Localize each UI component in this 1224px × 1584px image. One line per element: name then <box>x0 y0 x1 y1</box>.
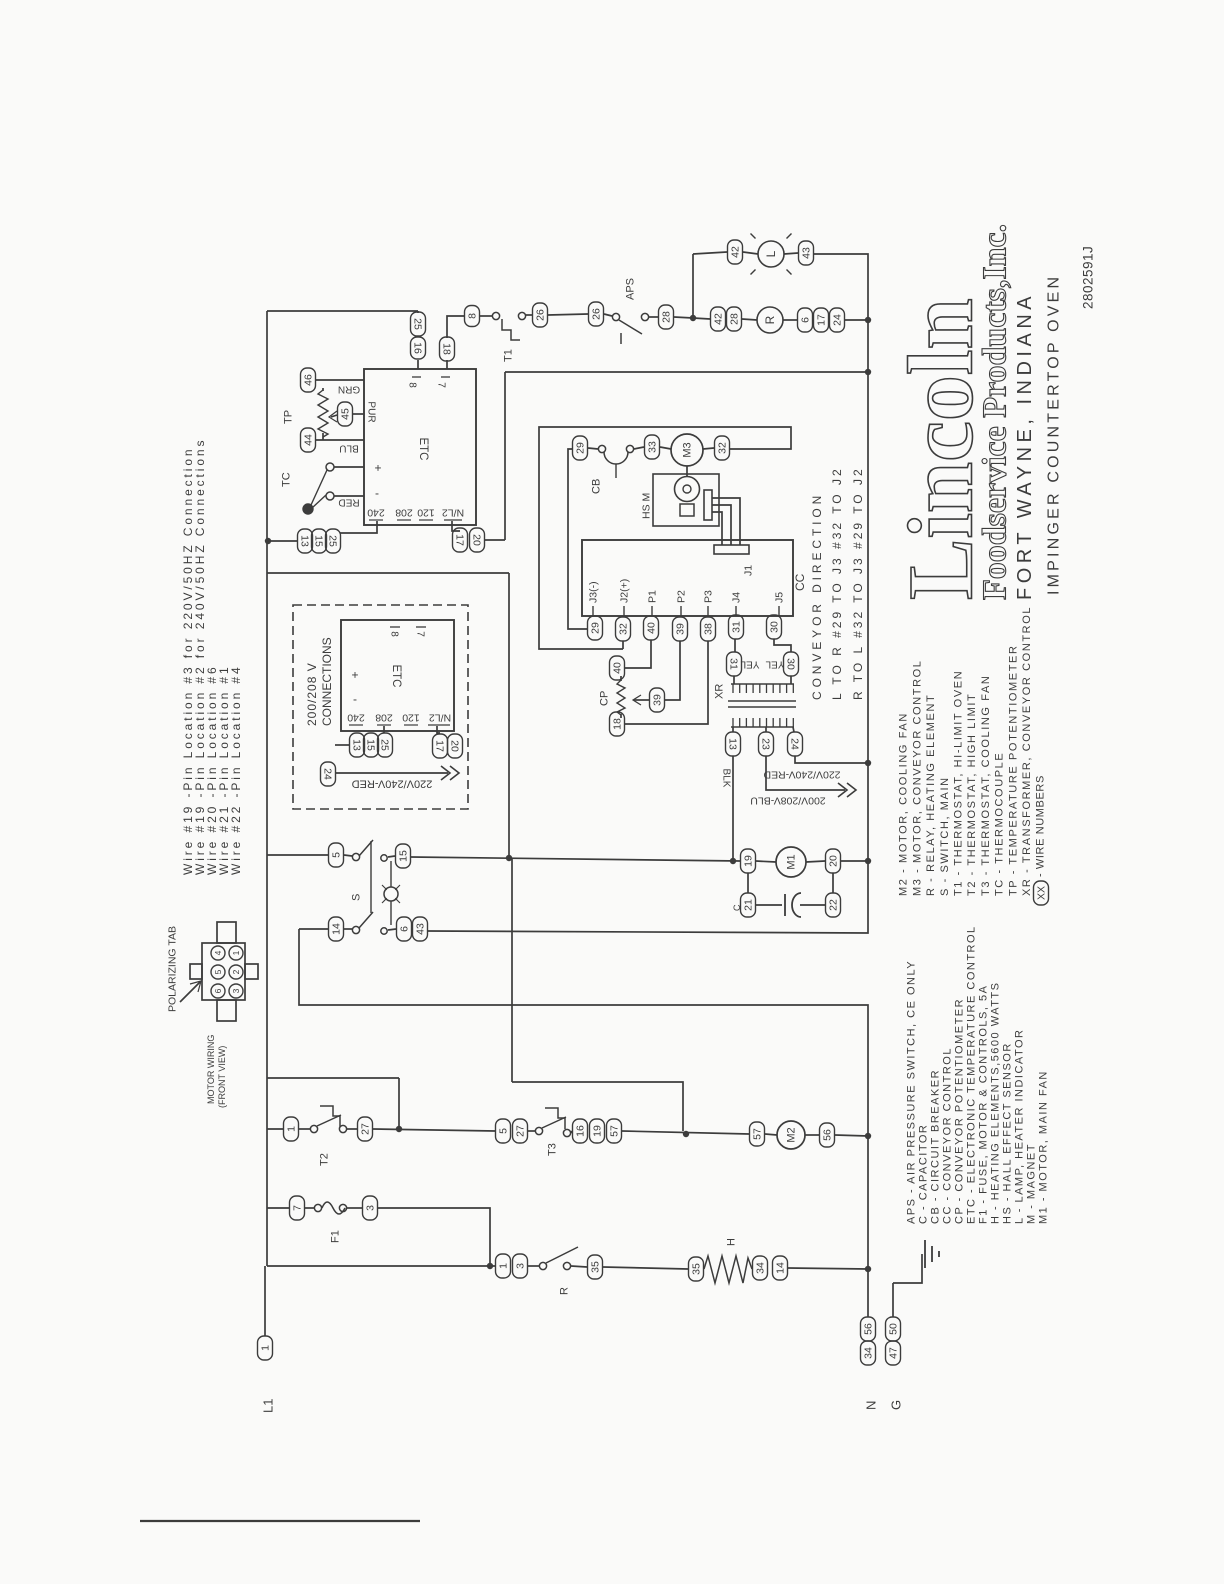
wire number 1 at T2 <box>284 1117 299 1141</box>
svg-text:XR - TRANSFORMER, CONVEYOR CO: XR - TRANSFORMER, CONVEYOR CONTROL <box>1021 606 1033 896</box>
svg-text:120: 120 <box>402 711 420 723</box>
wire number 17 <box>433 734 448 758</box>
box 200/208V connections (dashed) <box>293 605 468 809</box>
svg-text:CONNECTIONS: CONNECTIONS <box>320 637 334 726</box>
magnet disc M <box>675 477 700 502</box>
svg-text:17: 17 <box>433 740 445 752</box>
ETC pin7 riser to T1 row <box>447 316 464 338</box>
wire left bus L1 side <box>266 311 268 1266</box>
wire number 27 at T3 <box>513 1119 528 1143</box>
svg-text:L1: L1 <box>260 1399 275 1413</box>
wire number 35 at R <box>588 1255 603 1279</box>
svg-text:+: + <box>374 461 381 475</box>
node bus/ETC-240 junction <box>265 538 271 544</box>
wire number 43 at S <box>413 917 428 941</box>
wire to S pole2 wire-14 pill <box>299 928 328 930</box>
svg-text:CP: CP <box>599 691 611 706</box>
wire to pill 42 lamp row <box>693 252 727 254</box>
svg-text:HS - HALL EFFECT SENSOR: HS - HALL EFFECT SENSOR <box>1002 1042 1014 1224</box>
contact R left <box>539 1262 546 1269</box>
wire number 7 at F1 <box>290 1196 305 1220</box>
wire M1 to 20 <box>806 861 825 862</box>
svg-text:38: 38 <box>703 623 715 635</box>
wire number 32 at M3 <box>715 436 730 460</box>
wire BLU to ETC1 <box>316 439 364 441</box>
svg-text:5: 5 <box>498 1128 510 1134</box>
node R row / bus <box>865 317 871 323</box>
svg-text:L - LAMP, HEATER INDICATOR: L - LAMP, HEATER INDICATOR <box>1014 1029 1026 1224</box>
thermostat T1 element <box>502 319 520 340</box>
potentiometer CP <box>617 680 625 715</box>
pin 8 of ETC2 <box>390 626 400 628</box>
svg-text:14: 14 <box>331 923 343 935</box>
svg-text:31: 31 <box>731 621 743 633</box>
connector motor wiring front view <box>202 943 245 1000</box>
transformer XR core <box>728 700 796 702</box>
svg-text:4: 4 <box>213 950 223 955</box>
svg-text:J2(+): J2(+) <box>619 579 631 603</box>
wire stub at pill 13 <box>335 744 349 746</box>
wire bus to switch S pole1 <box>267 854 328 856</box>
wire number 34 at H <box>753 1256 768 1280</box>
node T3 out junction <box>683 1131 689 1137</box>
wire CC J2 to M3 terminal 32 <box>539 427 791 649</box>
connector pin 2 <box>229 965 243 979</box>
wire L1 row to relay R <box>267 1265 495 1267</box>
svg-text:43: 43 <box>415 923 427 935</box>
CP wiper arrow <box>634 699 649 701</box>
svg-text:7: 7 <box>292 1205 304 1211</box>
svg-text:29: 29 <box>590 622 602 634</box>
wire bus to T2 wire-1 pill <box>267 1128 284 1130</box>
svg-text:M2: M2 <box>786 1127 798 1142</box>
switch APS tick <box>620 333 622 344</box>
svg-text:16: 16 <box>411 342 423 354</box>
svg-text:30: 30 <box>784 658 796 670</box>
node ETC feed / bus <box>865 369 871 375</box>
wire right bus upper (L row to S pole2 out) <box>428 254 868 933</box>
arrow polarizing tab <box>180 982 200 1002</box>
wire feeder drop to M1 row <box>508 573 510 858</box>
svg-text:TP - TEMPERATURE POTENTIOMETE: TP - TEMPERATURE POTENTIOMETER <box>1007 644 1019 896</box>
svg-text:M3: M3 <box>682 442 694 457</box>
svg-text:56: 56 <box>822 1129 834 1141</box>
wire number 3 at F1 <box>363 1196 378 1220</box>
svg-text:3: 3 <box>515 1263 527 1269</box>
svg-text:R: R <box>559 1287 571 1295</box>
svg-text:17: 17 <box>816 314 828 326</box>
svg-text:18: 18 <box>612 718 624 730</box>
svg-text:44: 44 <box>303 434 315 446</box>
svg-text:13: 13 <box>350 739 362 751</box>
svg-text:T2: T2 <box>319 1153 331 1166</box>
svg-text:XX: XX <box>1036 886 1048 900</box>
svg-text:F1: F1 <box>330 1230 342 1243</box>
svg-text:25: 25 <box>378 739 390 751</box>
svg-text:200V/208V-BLU: 200V/208V-BLU <box>750 794 825 806</box>
svg-text:BLK: BLK <box>721 769 732 788</box>
svg-text:H - HEATING ELEMENTS,5600 WAT: H - HEATING ELEMENTS,5600 WATTS <box>990 982 1002 1225</box>
svg-text:N/L2: N/L2 <box>429 711 451 723</box>
svg-text:6: 6 <box>800 317 812 323</box>
wire branch up to lamp row <box>692 254 694 318</box>
svg-text:46: 46 <box>303 374 315 386</box>
svg-text:1: 1 <box>260 1345 272 1351</box>
wire number 28 <box>659 305 674 329</box>
svg-text:208: 208 <box>375 711 393 723</box>
wire bus to ETC terminal pills <box>267 540 297 542</box>
wire CC P3 to CP bottom <box>625 641 708 724</box>
wire F1 to R row <box>378 1208 490 1266</box>
node BLK junction <box>730 858 736 864</box>
svg-text:-: - <box>353 694 357 708</box>
wire across to T3 output <box>512 1082 683 1131</box>
contact S pole1 right <box>381 855 387 861</box>
svg-text:57: 57 <box>609 1125 621 1137</box>
svg-text:P3: P3 <box>703 590 715 603</box>
contact CB right <box>626 445 633 452</box>
wire GRN to ETC1 <box>316 379 364 381</box>
svg-text:6: 6 <box>399 926 411 932</box>
wire number 13 <box>350 733 365 757</box>
wire number 30 YEL <box>784 652 799 676</box>
svg-text:L: L <box>764 250 778 257</box>
wire to pill 20 <box>484 539 505 541</box>
wire number 8 <box>465 306 480 327</box>
wire number 50 <box>886 1317 901 1341</box>
contact CB left <box>598 445 605 452</box>
svg-text:29: 29 <box>575 442 587 454</box>
contact T3 left <box>535 1127 542 1134</box>
wire number 1 at R <box>496 1254 511 1278</box>
contact S pole2 right <box>381 928 387 934</box>
relay coil R <box>757 307 783 333</box>
wire number 13 <box>298 529 313 553</box>
transformer XR primary comb <box>731 726 794 728</box>
wire number 16 at ETC pin8 <box>411 337 426 359</box>
box ETC electronic temperature control <box>364 369 476 525</box>
wire number 57 at T3 <box>607 1119 622 1143</box>
thermostat T3 element <box>545 1108 565 1129</box>
contact F1 right <box>339 1204 346 1211</box>
wire number 42 <box>711 307 726 331</box>
svg-text:TC - THERMOCOUPLE: TC - THERMOCOUPLE <box>994 752 1006 896</box>
svg-text:F1 - FUSE, MOTOR & CONTROLS,: F1 - FUSE, MOTOR & CONTROLS, 5A <box>978 985 990 1224</box>
contact APS left <box>612 313 619 320</box>
svg-text:25: 25 <box>326 535 338 547</box>
svg-text:T2 - THERMOSTAT, HIGH LIMIT: T2 - THERMOSTAT, HIGH LIMIT <box>966 693 978 896</box>
connector pin 1 <box>229 946 243 960</box>
wire number 13 BLK tap <box>726 732 741 756</box>
wire number 25 at ETC pin8 <box>411 312 426 336</box>
wire branch drop to T2 output <box>398 1078 400 1129</box>
svg-text:26: 26 <box>591 308 603 320</box>
contact T3 right <box>563 1129 570 1136</box>
wire number 19 at T3 <box>590 1119 605 1143</box>
wire number 25 <box>378 733 393 757</box>
svg-text:Wire #22 -Pin Location #4: Wire #22 -Pin Location #4 <box>229 664 243 875</box>
wire RED tap to bus <box>795 756 866 763</box>
svg-text:1: 1 <box>498 1263 510 1269</box>
wire number 24 <box>830 308 845 332</box>
svg-text:M1 - MOTOR, MAIN FAN: M1 - MOTOR, MAIN FAN <box>1038 1070 1050 1224</box>
svg-text:J5: J5 <box>774 592 786 603</box>
svg-text:240: 240 <box>367 506 385 518</box>
wire 19 to capacitor <box>747 873 749 893</box>
switch S link bar <box>370 841 372 913</box>
contact T2 right <box>339 1125 346 1132</box>
wire number 22 at capacitor <box>826 893 841 917</box>
svg-text:RED: RED <box>338 497 359 508</box>
transformer XR secondary comb <box>731 683 794 685</box>
wire number 45 <box>338 402 353 426</box>
svg-text:S: S <box>351 894 363 901</box>
wire ETC1 N/L2 terminal to pills <box>452 521 460 531</box>
svg-text:PUR: PUR <box>366 401 377 422</box>
potentiometer TP <box>318 390 328 437</box>
svg-text:24: 24 <box>832 314 844 326</box>
svg-text:M2 - MOTOR, COOLING FAN: M2 - MOTOR, COOLING FAN <box>898 712 910 896</box>
fuse F1 element <box>322 1202 345 1214</box>
svg-text:19: 19 <box>743 855 755 867</box>
svg-text:CB: CB <box>591 479 603 494</box>
wire number 43 <box>799 241 814 265</box>
neon lamp in switch S <box>384 887 398 901</box>
wire number 6 <box>798 308 813 332</box>
svg-text:N: N <box>863 1401 878 1410</box>
wire CC J4 to XR <box>734 639 736 652</box>
switch S pole2 blade <box>359 912 373 928</box>
wire number 5 at T3 <box>496 1119 511 1143</box>
wire number 47 <box>886 1341 901 1365</box>
wire number 35 at H <box>689 1257 704 1281</box>
wire 28 to branch <box>674 317 693 318</box>
pin 7 of ETC1 <box>446 360 448 369</box>
svg-text:33: 33 <box>647 441 659 453</box>
wire number 40 at CP <box>610 656 625 680</box>
svg-text:T3: T3 <box>547 1143 559 1156</box>
contact R right <box>563 1262 570 1269</box>
wire number 42 <box>728 240 743 264</box>
node APS out branch <box>690 315 696 321</box>
wire bus to S-switch feeder <box>267 572 509 574</box>
svg-text:42: 42 <box>713 313 725 325</box>
wire S pole1 out to M1 row <box>411 857 740 861</box>
svg-text:7: 7 <box>415 631 426 637</box>
wire R to heater H <box>603 1267 688 1269</box>
pin 7 of ETC2 <box>416 626 426 628</box>
wire CC P2 to CP wiper <box>665 641 680 700</box>
svg-text:19: 19 <box>592 1125 604 1137</box>
wire G to ground <box>892 1283 894 1317</box>
wire number 56 at M2 <box>820 1123 835 1147</box>
svg-text:13: 13 <box>726 738 738 750</box>
svg-text:2802591J: 2802591J <box>1081 246 1096 309</box>
wire ETC2 N/L2 terminal to pills <box>437 726 440 733</box>
connector pin 6 <box>211 984 225 998</box>
motor M3 conveyor <box>671 434 703 466</box>
wire number 26 <box>589 302 604 326</box>
svg-text:30: 30 <box>769 621 781 633</box>
svg-text:(FRONT VIEW): (FRONT VIEW) <box>217 1046 227 1108</box>
svg-text:ETC: ETC <box>390 665 402 688</box>
wire number 21 at capacitor <box>741 893 756 917</box>
wire ETC2 208 terminal to pills <box>383 726 385 733</box>
switch S pole1 blade <box>359 840 373 856</box>
svg-text:P2: P2 <box>676 590 688 603</box>
contact S pole1 left <box>352 853 359 860</box>
svg-text:25: 25 <box>411 318 423 330</box>
ground symbol <box>893 1254 922 1283</box>
wire number 20 <box>448 734 463 758</box>
wire number 26 <box>533 303 548 327</box>
svg-text:20: 20 <box>448 740 460 752</box>
svg-text:8: 8 <box>407 382 418 388</box>
wire number 23 BLU tap <box>759 732 774 756</box>
svg-text:G: G <box>888 1400 903 1410</box>
svg-text:J4: J4 <box>731 592 743 603</box>
svg-text:IMPINGER COUNTERTOP OVEN: IMPINGER COUNTERTOP OVEN <box>1045 274 1062 595</box>
svg-text:34: 34 <box>755 1262 767 1274</box>
svg-text:J3(-): J3(-) <box>588 581 600 603</box>
wire number 1 at L1 <box>258 1336 273 1360</box>
wire 26 to APS <box>604 314 612 316</box>
wire number 20 <box>470 528 485 552</box>
wire number 27 at T2 <box>358 1117 373 1141</box>
HS connector bar <box>704 490 712 520</box>
svg-text:YEL: YEL <box>740 659 759 670</box>
svg-text:H: H <box>726 1238 738 1246</box>
svg-text:27: 27 <box>360 1123 372 1135</box>
svg-text:220V/240V-RED: 220V/240V-RED <box>352 777 433 789</box>
wire number 15 <box>312 529 327 553</box>
wire number 57 at M2 <box>750 1122 765 1146</box>
svg-text:31: 31 <box>727 658 739 670</box>
thermostat T3 blade <box>542 1117 566 1128</box>
svg-text:TC: TC <box>281 472 293 487</box>
svg-text:MOTOR WIRING: MOTOR WIRING <box>206 1035 216 1104</box>
svg-text:16: 16 <box>575 1125 587 1137</box>
svg-text:47: 47 <box>888 1347 900 1359</box>
wire number 15 <box>364 733 379 757</box>
svg-text:28: 28 <box>661 311 673 323</box>
arrow BLU lead <box>838 783 847 797</box>
svg-text:R: R <box>763 315 777 324</box>
svg-text:39: 39 <box>652 694 664 706</box>
contact T2 left <box>310 1125 317 1132</box>
svg-text:1: 1 <box>286 1126 298 1132</box>
svg-text:POLARIZING TAB: POLARIZING TAB <box>167 926 179 1012</box>
motor M1 main fan <box>776 847 806 877</box>
box ETC (200/208V version) <box>341 620 454 731</box>
wire number 16 at T3 <box>573 1119 588 1143</box>
svg-text:40: 40 <box>646 622 658 634</box>
svg-text:R TO L #32 TO J3 #29 TO J2: R TO L #32 TO J3 #29 TO J2 <box>851 466 865 700</box>
CC pin labels <box>592 606 594 616</box>
svg-text:18: 18 <box>440 343 452 355</box>
svg-text:APS - AIR PRESSURE SWITCH, CE: APS - AIR PRESSURE SWITCH, CE ONLY <box>906 960 918 1224</box>
svg-text:- WIRE NUMBERS: - WIRE NUMBERS <box>1035 775 1047 877</box>
svg-text:22: 22 <box>828 899 840 911</box>
wire drop to ETC 17/20 pills <box>504 372 506 540</box>
svg-text:5: 5 <box>331 852 343 858</box>
svg-text:+: + <box>351 668 358 682</box>
svg-text:43: 43 <box>801 247 813 259</box>
node feeder junction <box>506 855 512 861</box>
svg-text:40: 40 <box>612 662 624 674</box>
wire drop to M2 row <box>511 858 513 1082</box>
wire number 39 at CP <box>650 688 665 712</box>
svg-text:35: 35 <box>590 1261 602 1273</box>
svg-text:7: 7 <box>436 382 447 388</box>
wire branch to R row <box>693 318 710 319</box>
wire BLU tap flying lead <box>766 756 845 790</box>
wire H row to neutral bus <box>788 1268 868 1269</box>
contact T1 right <box>518 312 525 319</box>
wire number 24 <box>321 762 336 786</box>
connector pin 4 <box>211 946 225 960</box>
svg-text:ETC - ELECTRONIC TEMPERATURE C: ETC - ELECTRONIC TEMPERATURE CONTROL <box>966 925 978 1224</box>
svg-text:GRN: GRN <box>338 384 360 395</box>
wire CC P1 to CP top <box>625 640 651 668</box>
wire M2 to neutral bus <box>835 1135 868 1136</box>
svg-text:5: 5 <box>213 969 223 974</box>
thermostat T2 element <box>320 1106 340 1127</box>
svg-text:-: - <box>375 488 379 502</box>
svg-text:CONVEYOR DIRECTION: CONVEYOR DIRECTION <box>810 492 824 700</box>
svg-text:2: 2 <box>231 969 241 974</box>
svg-text:32: 32 <box>618 623 630 635</box>
wire S pole2 feed from neutral bus <box>299 929 868 1317</box>
circuit breaker CB arc <box>604 452 628 464</box>
svg-text:ETC: ETC <box>417 438 429 461</box>
svg-text:M - MAGNET: M - MAGNET <box>1026 1143 1038 1224</box>
wire number 33 at M3 <box>645 435 660 459</box>
svg-text:J1: J1 <box>743 565 755 576</box>
contact S pole2 left <box>352 926 359 933</box>
wire number 34 <box>861 1341 876 1365</box>
wire number 14 at S <box>329 917 344 941</box>
wire number 39 <box>673 617 688 641</box>
node T2 out / bus branch <box>396 1126 402 1132</box>
wire ETC N/L2 feed to bus <box>505 371 868 373</box>
svg-text:57: 57 <box>752 1128 764 1140</box>
wire number 6 at S <box>397 917 412 941</box>
wire M1 to bus <box>841 860 868 862</box>
svg-text:120: 120 <box>417 506 435 518</box>
wire CC J5 to XR <box>774 639 791 652</box>
thermostat T2 blade <box>317 1115 341 1126</box>
relay R blade <box>546 1247 578 1263</box>
svg-text:20: 20 <box>470 534 482 546</box>
svg-text:BLU: BLU <box>339 443 358 454</box>
box CC conveyor control <box>582 540 793 616</box>
contact T1 left <box>492 312 499 319</box>
wire number 29 at CB <box>573 436 588 460</box>
wire number 5 at S <box>329 843 344 867</box>
wire 27 to T3 contact <box>528 1130 535 1132</box>
svg-text:3: 3 <box>231 988 241 993</box>
contact APS right <box>641 313 648 320</box>
3-wire bus HS to CC J1 <box>712 498 740 545</box>
wire 26 to 26 <box>548 314 588 315</box>
svg-text:R - RELAY, HEATING ELEMENT: R - RELAY, HEATING ELEMENT <box>925 694 937 896</box>
capacitor C <box>756 904 782 906</box>
wire L1 riser <box>264 1266 266 1336</box>
svg-text:20: 20 <box>828 855 840 867</box>
svg-text:M1: M1 <box>786 854 798 869</box>
svg-text:APS: APS <box>625 278 637 300</box>
